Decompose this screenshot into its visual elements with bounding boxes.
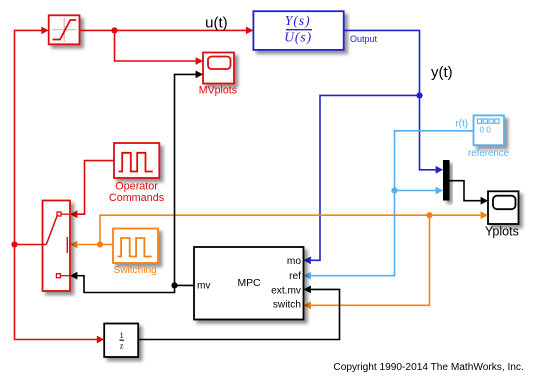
wire lightblue: reference output to mux and MPC ref [311,131,474,276]
wire red: switch output to saturation input and delay input [15,30,98,339]
svg-text:ext.mv: ext.mv [271,285,302,296]
node navy junction y(t) [416,92,422,98]
arrowhead into MPC mo [304,256,311,264]
wire black: unit delay output to MPC ext.mv [138,289,339,339]
arrowhead into Yplots input 2 [481,211,488,219]
wire red: saturation output to transfer fcn and MVplots [80,30,247,61]
node red junction at switch output [11,241,17,247]
arrowhead into MPC ext.mv [304,286,311,294]
MPC controller block [194,247,304,320]
svg-text:mo: mo [287,256,301,267]
node orange junction at Switching output [97,241,103,247]
arrowhead into switch control input [70,241,77,249]
arrowhead into transfer fcn [246,27,253,35]
arrowhead into unit delay [97,336,104,344]
svg-text:mv: mv [197,281,211,292]
pulse generator Switching [113,229,158,276]
scope Yplots [485,191,519,238]
svg-text:Output: Output [350,34,378,44]
svg-text:y(t): y(t) [431,64,453,81]
svg-text:Switching: Switching [113,265,156,276]
node lightblue junction [391,187,397,193]
svg-text:MPC: MPC [237,278,261,289]
svg-text:MVplots: MVplots [199,84,237,96]
wire red: Operator Commands output to switch input 1 [78,161,115,215]
arrowhead into switch input 1 [70,210,77,218]
arrowhead into MVplots top input [196,57,203,65]
arrowhead into saturation [41,27,48,35]
node orange junction before Yplots [426,212,432,218]
scope MVplots [199,53,237,97]
pulse generator Operator Commands [109,143,165,204]
svg-text:reference: reference [468,148,509,159]
node red junction above MVplots [111,27,117,33]
svg-text:r(t): r(t) [455,118,468,129]
svg-text:1: 1 [119,330,123,340]
svg-text:Operator: Operator [115,181,158,193]
arrowhead into mux input 2 [436,187,443,195]
source reference [468,115,509,159]
svg-text:u(t): u(t) [205,14,228,31]
svg-text:switch: switch [273,299,301,310]
arrowhead into MPC switch [304,301,311,309]
mux [443,160,450,201]
wire navy: transfer fcn output to mux and MPC mo [311,30,436,260]
arrowhead into MPC ref [304,272,311,280]
svg-text:Commands: Commands [109,192,165,204]
wire black: MPC mv output to MVplots and switch input 3 [78,74,197,292]
svg-text:Yplots: Yplots [485,225,519,239]
wire orange: Switching output to switch control, Yplots input 2 and MPC switch [78,215,481,305]
svg-text:0 0: 0 0 [480,126,492,135]
arrowhead into mux input 1 [436,166,443,174]
unit delay block 1/z [104,324,138,358]
switch block [43,201,71,292]
arrowhead into MVplots bottom input [196,71,203,79]
saturation block [49,15,80,44]
svg-text:Copyright 1990-2014 The MathWo: Copyright 1990-2014 The MathWorks, Inc. [333,362,523,373]
transfer fcn block Y(s)/U(s) [253,11,343,50]
arrowhead into Yplots input 1 [481,197,488,205]
svg-text:z: z [120,341,124,351]
svg-text:U(s): U(s) [284,30,312,45]
wire black: mux output to Yplots input 1 [450,181,481,201]
arrowhead into switch input 3 [70,272,77,280]
node black junction at mv output [171,282,177,288]
svg-text:ref: ref [289,271,301,282]
svg-text:Y(s): Y(s) [285,13,311,28]
